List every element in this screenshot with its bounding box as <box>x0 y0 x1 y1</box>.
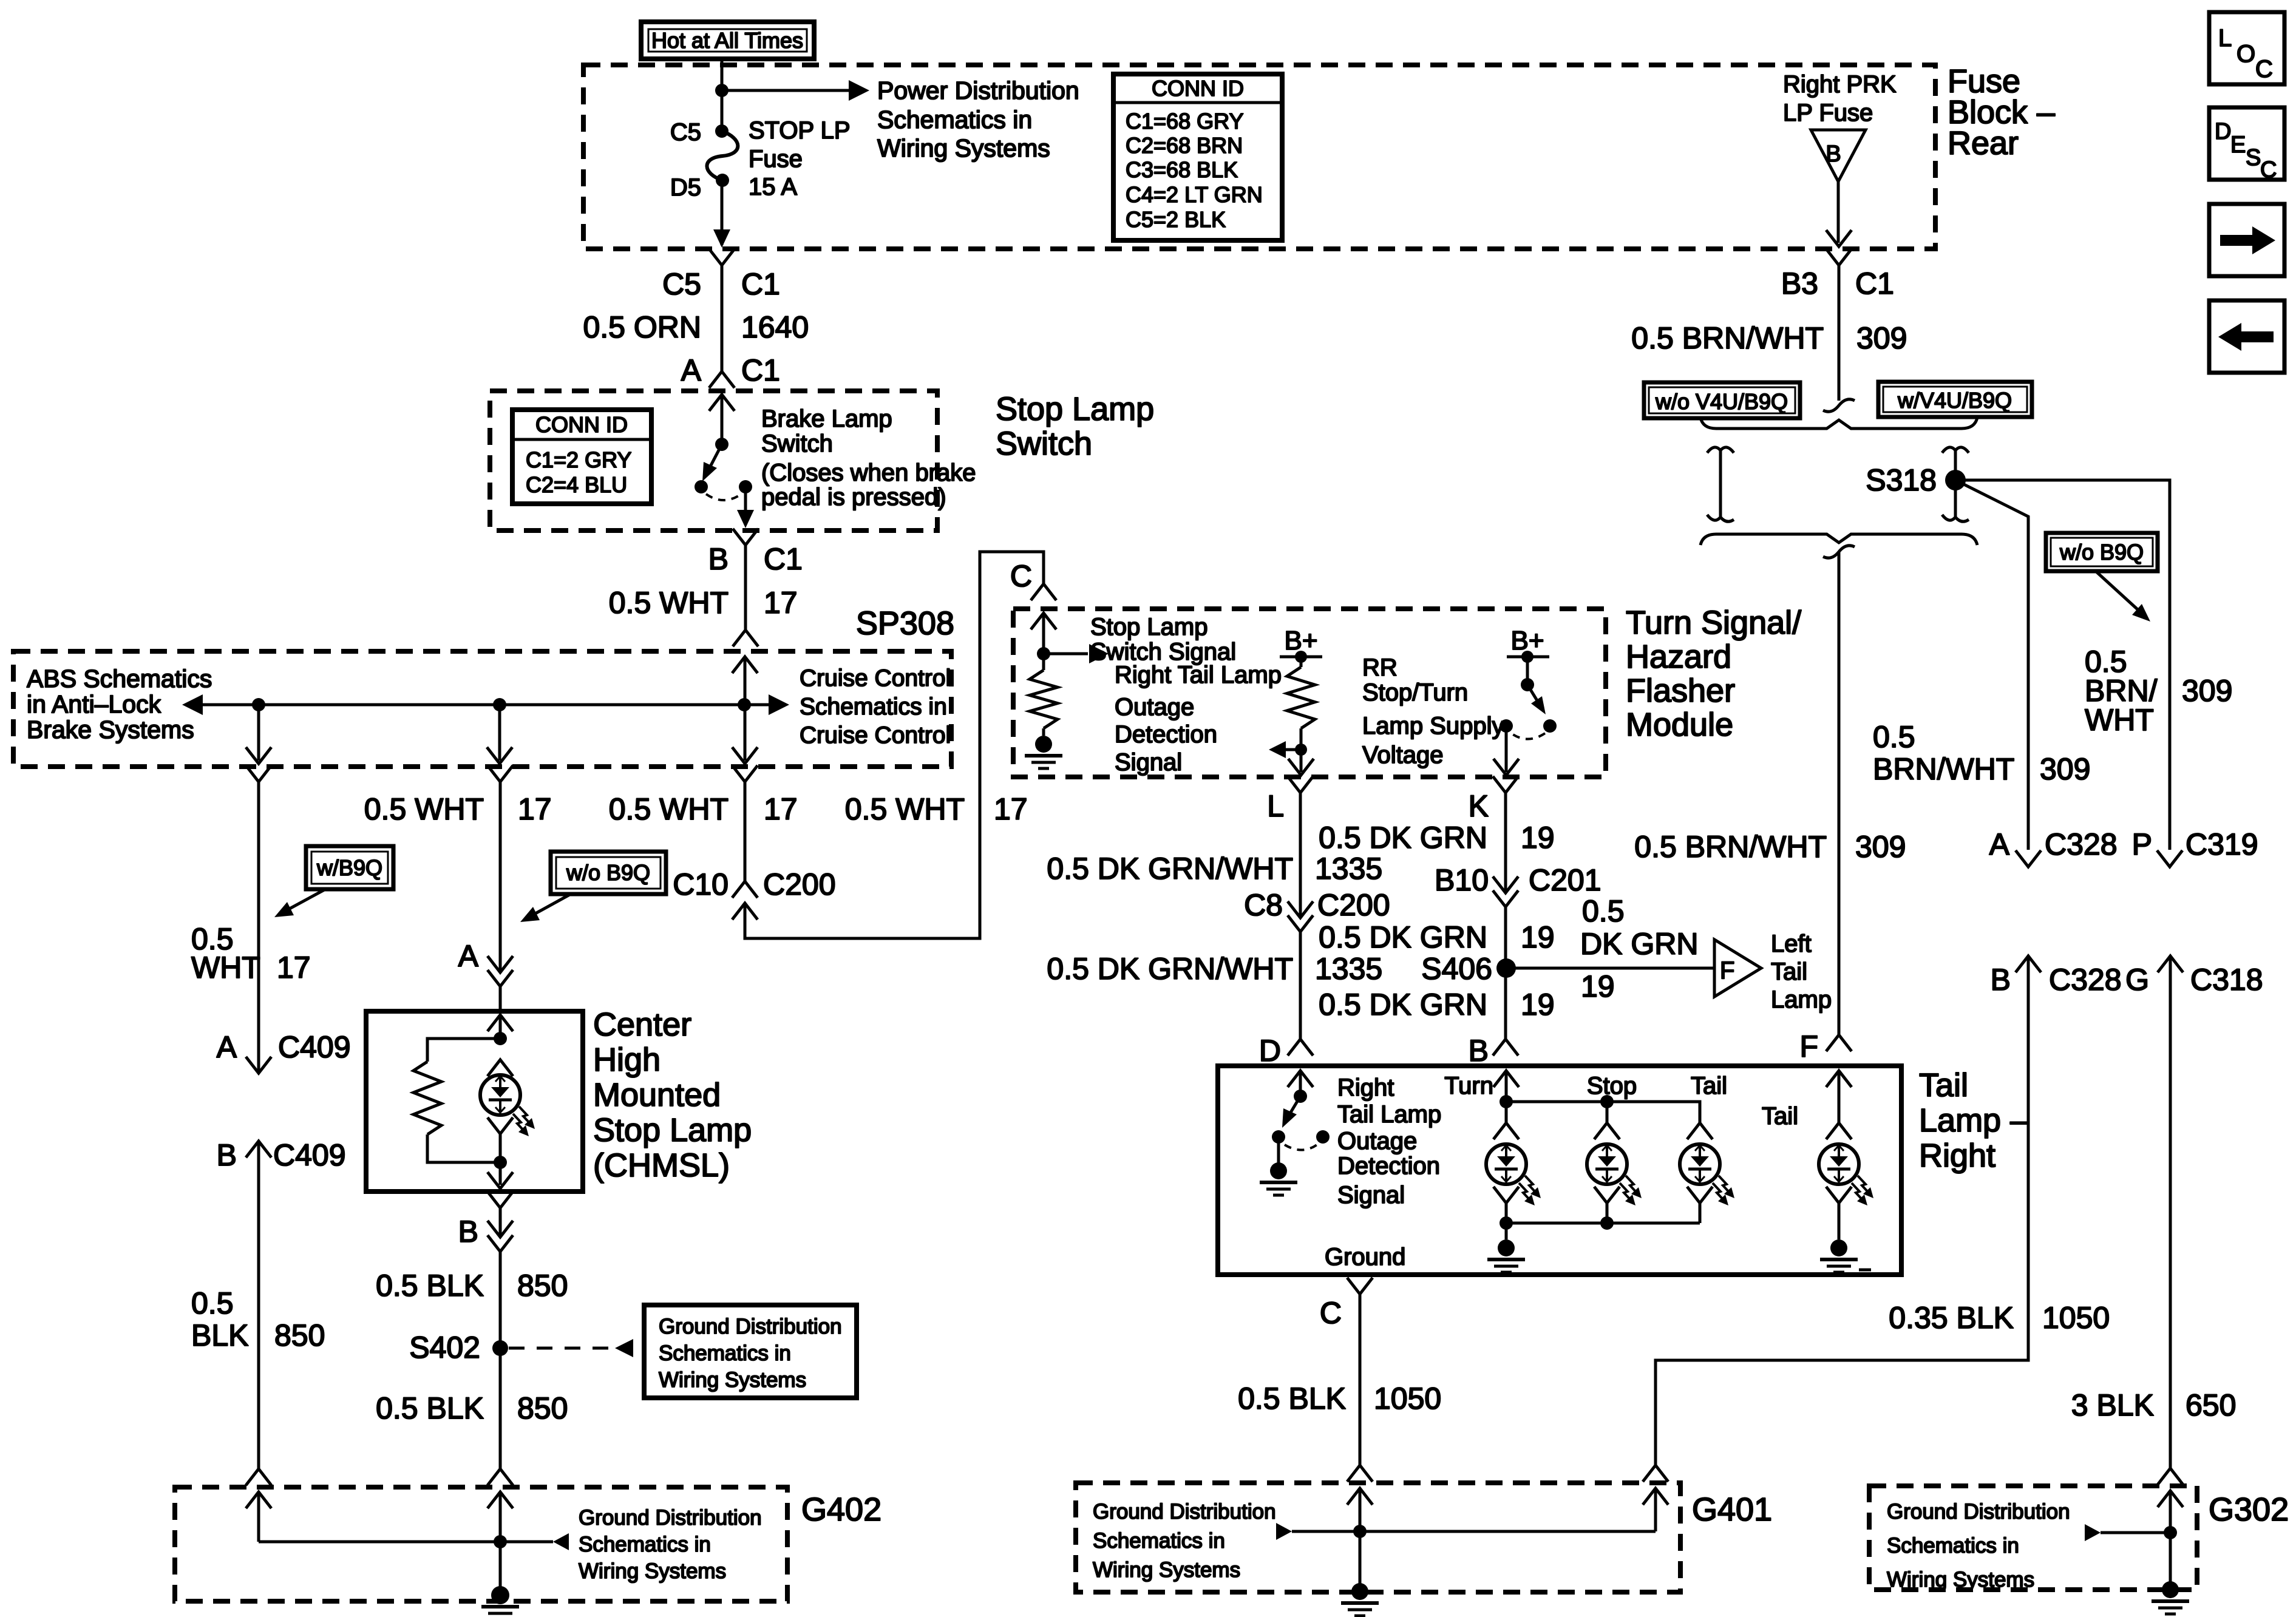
exit arrow at cruise box bottom <box>732 747 758 764</box>
svg-text:0.5 WHT: 0.5 WHT <box>609 792 729 826</box>
splice label S318 <box>1866 463 1937 497</box>
svg-text:(Closes when brake: (Closes when brake <box>761 459 976 486</box>
svg-text:Ground Distribution: Ground Distribution <box>1887 1500 2070 1524</box>
svg-text:Lamp: Lamp <box>1771 986 1832 1013</box>
svg-text:C1: C1 <box>741 353 780 387</box>
turn bulb fork bottom <box>1493 1187 1519 1203</box>
svg-text:B: B <box>458 1215 478 1249</box>
pin label A <box>217 1030 237 1064</box>
wire bulb to bottom junction <box>499 1134 502 1162</box>
svg-text:Wiring Systems: Wiring Systems <box>1887 1568 2034 1592</box>
svg-text:19: 19 <box>1521 988 1555 1022</box>
arrow at fuse block exit <box>713 229 730 248</box>
svg-text:Tail Lamp: Tail Lamp <box>1337 1101 1441 1128</box>
svg-text:0.35 BLK: 0.35 BLK <box>1889 1301 2014 1335</box>
wire label 0.5 BLK (tail) <box>1238 1381 1346 1415</box>
svg-text:C: C <box>2255 56 2273 83</box>
arrow to ABS schematics <box>182 694 203 715</box>
svg-text:Cruise Control: Cruise Control <box>800 665 951 691</box>
connector fork below CHMSL <box>487 1192 513 1208</box>
connector fork into G402 (middle) <box>487 1469 513 1485</box>
svg-text:w/o B9Q: w/o B9Q <box>566 860 650 885</box>
note: Stop Lamp Switch Signal <box>1090 614 1236 665</box>
svg-text:G302: G302 <box>2209 1491 2289 1528</box>
exit arrow at cruise box bottom <box>487 747 512 764</box>
svg-text:Power Distribution: Power Distribution <box>877 76 1079 104</box>
outage switch travel dashed arc <box>1285 1144 1319 1150</box>
CHMSL top junction dot <box>494 1032 507 1045</box>
svg-text:Wiring Systems: Wiring Systems <box>579 1559 726 1583</box>
svg-text:P: P <box>2132 827 2152 861</box>
stop bulb fork top <box>1594 1123 1620 1139</box>
branch arrow left <box>1269 741 1301 758</box>
circuit number 309 (A wire) <box>2040 752 2090 786</box>
exit arrow at cruise box bottom <box>246 747 271 764</box>
svg-text:Left: Left <box>1771 931 1812 957</box>
wire label 0.5 BRN/WHT <box>1631 321 1824 355</box>
circuit number 1335 <box>1315 852 1382 886</box>
stop bulb fork bottom <box>1594 1187 1620 1203</box>
svg-text:17: 17 <box>764 586 798 620</box>
svg-text:0.5 BLK: 0.5 BLK <box>1238 1381 1346 1415</box>
circuit number 17 <box>764 586 798 620</box>
ground box G401 dashed <box>1076 1483 1680 1592</box>
F bulb fork top <box>1826 1123 1852 1139</box>
G401 junction dot <box>1353 1525 1367 1538</box>
pin label B <box>217 1138 237 1172</box>
svg-text:Wiring Systems: Wiring Systems <box>659 1368 806 1392</box>
pin label C1 (right) <box>1855 266 1894 300</box>
svg-text:Flasher: Flasher <box>1626 673 1735 709</box>
svg-text:Ground Distribution: Ground Distribution <box>659 1315 842 1338</box>
dashed reference line from S402 <box>509 1339 633 1357</box>
svg-text:850: 850 <box>517 1391 568 1425</box>
entry arrow into flasher (C) <box>1031 613 1056 629</box>
wire label 0.5 ORN <box>583 310 701 344</box>
wire drop inside cruise box <box>257 705 260 761</box>
wire label 0.5 BRN/WHT (F wire) <box>1634 830 1827 864</box>
svg-text:C319: C319 <box>2186 827 2258 861</box>
connector fork into G402 <box>246 1469 271 1485</box>
svg-text:Tail: Tail <box>1771 958 1807 985</box>
wire into G302 bus <box>2169 1491 2172 1533</box>
resistor (stop lamp signal) <box>1030 654 1058 728</box>
svg-text:17: 17 <box>764 792 798 826</box>
svg-text:Right: Right <box>1337 1074 1394 1101</box>
pin label C1 (switch side) <box>741 353 780 387</box>
svg-text:LP Fuse: LP Fuse <box>1783 100 1873 126</box>
G402 junction dot <box>494 1535 507 1548</box>
connector C200 fork <box>732 881 758 898</box>
pin label D <box>1259 1034 1281 1068</box>
CONN ID table (stop lamp switch) <box>512 410 651 504</box>
minus mark <box>1859 1269 1871 1272</box>
svg-text:C200: C200 <box>1317 888 1390 922</box>
wire label 0.5 WHT <box>609 792 729 826</box>
svg-text:w/o V4U/B9Q: w/o V4U/B9Q <box>1655 389 1788 414</box>
svg-text:650: 650 <box>2186 1388 2236 1422</box>
wire label 0.5 DK GRN/WHT <box>1047 852 1293 886</box>
note: ABS Schematics in Anti-Lock Brake Systems <box>27 665 212 744</box>
connector C200 arrow (L wire) <box>1288 901 1313 918</box>
connector fork into cruise box <box>733 630 758 646</box>
tail lamp bulb <box>1680 1144 1734 1205</box>
pin label C5 <box>670 119 701 146</box>
wire resistor to L junction <box>1300 728 1303 750</box>
entry arrow into CHMSL <box>487 1015 513 1031</box>
entry arrow into G302 <box>2158 1491 2183 1507</box>
wire label 0.5 BRN/WHT (stacked, P wire) <box>2085 645 2158 737</box>
wire segment 0.5 BLK 850 to S402 <box>499 1252 502 1469</box>
svg-text:17: 17 <box>277 951 311 985</box>
svg-text:Stop Lamp: Stop Lamp <box>1090 614 1207 640</box>
bulb terminal fork (top) <box>487 1060 513 1076</box>
svg-text:850: 850 <box>274 1318 325 1352</box>
top bus junction dot (stop) <box>1600 1095 1614 1108</box>
svg-text:Lamp Supply: Lamp Supply <box>1362 713 1504 739</box>
svg-text:Fuse: Fuse <box>749 146 803 172</box>
svg-text:Center: Center <box>593 1006 691 1043</box>
connector A arrow <box>487 956 513 972</box>
svg-text:Schematics in: Schematics in <box>579 1533 711 1556</box>
svg-text:C1=2 GRY: C1=2 GRY <box>526 447 631 472</box>
entry arrow into cruise box <box>732 657 758 673</box>
svg-text:0.5 BLK: 0.5 BLK <box>376 1269 484 1303</box>
svg-text:0.5 DK GRN: 0.5 DK GRN <box>1319 821 1487 855</box>
wire label 0.5 DK GRN (2) <box>1319 920 1487 954</box>
connector label C409 <box>278 1030 351 1064</box>
pin label C5 (block side) <box>662 267 701 301</box>
wire segment 0.5 BLK 1050 <box>1359 1294 1362 1465</box>
note: Ground Distribution Schematics in Wiring Systems (G302) <box>1887 1500 2070 1592</box>
svg-text:BLK: BLK <box>191 1318 249 1352</box>
note: Brake Lamp Switch (Closes when brake pedal is pressed) <box>761 405 976 510</box>
svg-text:CONN ID: CONN ID <box>1152 76 1244 101</box>
svg-text:C1: C1 <box>741 267 780 301</box>
wire into G401 bus <box>1359 1488 1362 1531</box>
CHMSL bottom junction dot <box>494 1156 507 1169</box>
connector fork into switch <box>709 371 735 388</box>
svg-text:C409: C409 <box>273 1138 346 1172</box>
connector label C318 (lower) <box>2190 963 2263 997</box>
svg-text:Signal: Signal <box>1115 749 1182 776</box>
pin label F <box>1799 1029 1818 1063</box>
bulb name Stop <box>1587 1073 1637 1099</box>
svg-text:RR: RR <box>1362 654 1398 681</box>
note: Left Tail Lamp <box>1771 931 1832 1013</box>
switch blade <box>702 444 722 481</box>
connector C1 upper fork <box>709 249 735 265</box>
flasher junction dot (C) <box>1037 647 1050 660</box>
G402 bus wire <box>259 1541 553 1544</box>
svg-text:Detection: Detection <box>1115 721 1217 748</box>
svg-text:Right Tail Lamp: Right Tail Lamp <box>1115 662 1282 688</box>
pin label B3 <box>1781 266 1818 300</box>
svg-text:0.5 ORN: 0.5 ORN <box>583 310 701 344</box>
pin label A <box>681 353 702 387</box>
svg-text:309: 309 <box>1856 321 1907 355</box>
svg-text:E: E <box>2230 132 2246 158</box>
circuit number 309 (F wire) <box>1855 830 1906 864</box>
circuit number 17 <box>518 792 552 826</box>
circuit number 19 (2) <box>1521 920 1555 954</box>
entry arrow into G402 (middle) <box>487 1492 513 1508</box>
tail lamp - right solid box <box>1218 1066 1901 1275</box>
svg-text:C328: C328 <box>2049 963 2122 997</box>
connector C200 fork (L wire) <box>1288 915 1313 932</box>
svg-text:w/V4U/B9Q: w/V4U/B9Q <box>1897 388 2012 413</box>
pin label K <box>1469 789 1489 823</box>
svg-text:A: A <box>681 353 702 387</box>
resistor R (CHMSL shunt) <box>413 1039 500 1162</box>
svg-text:BRN/WHT: BRN/WHT <box>1873 752 2014 786</box>
splice bus wire SP308 <box>185 703 786 707</box>
entry arrow into tail lamp (F) <box>1826 1071 1852 1087</box>
svg-text:0.5 DK GRN: 0.5 DK GRN <box>1319 920 1487 954</box>
svg-text:19: 19 <box>1521 821 1555 855</box>
wire resistor to ground <box>1042 728 1045 736</box>
DESC navigation box <box>2209 107 2284 183</box>
exit arrow at pin K <box>1493 759 1519 775</box>
pin label C <box>1010 559 1032 593</box>
svg-text:C201: C201 <box>1529 863 1601 897</box>
wire from closed contact to box edge <box>744 487 747 520</box>
connector label C328 <box>2045 827 2118 861</box>
svg-text:SP308: SP308 <box>856 605 954 642</box>
wire to G402 ground <box>499 1542 502 1588</box>
tail bulb fork top <box>1687 1123 1713 1139</box>
svg-text:C5: C5 <box>662 267 701 301</box>
wire jog to flasher input C <box>745 552 1044 938</box>
pin label C (tail lamp ground) <box>1320 1296 1342 1330</box>
bulb name Tail <box>1691 1073 1727 1099</box>
svg-text:C2=68 BRN: C2=68 BRN <box>1126 133 1243 158</box>
wire label 0.5 WHT <box>609 586 729 620</box>
power tag: Hot at All Times <box>641 22 814 59</box>
svg-text:0.5 WHT: 0.5 WHT <box>609 586 729 620</box>
G302 bus wire <box>2101 1531 2170 1534</box>
stop branch wire <box>1606 1102 1609 1123</box>
svg-text:High: High <box>593 1042 661 1078</box>
svg-text:S318: S318 <box>1866 463 1937 497</box>
connector fork at tail lamp F <box>1826 1035 1852 1051</box>
outage switch pivot dot <box>1294 1090 1307 1103</box>
tag box w/o V4U/B9Q <box>1644 382 1800 418</box>
circuit number 1050 (tail) <box>1374 1381 1441 1415</box>
wire segment 0.5 BRN/WHT 309 (S318 to tail lamp F) <box>1838 552 1841 1035</box>
connector A fork <box>487 970 513 986</box>
next-page arrow box <box>2209 204 2284 276</box>
turn signal / hazard flasher module dashed box <box>1013 609 1606 777</box>
svg-text:Brake Systems: Brake Systems <box>27 716 194 744</box>
connector label C319 <box>2186 827 2258 861</box>
S318 lower brace <box>1700 534 1977 545</box>
reference box: Ground Distribution Schematics in Wiring Systems <box>644 1305 857 1398</box>
resistor (RR stop/turn supply) <box>1287 657 1315 728</box>
connector label C200 <box>763 867 836 901</box>
switch closed contact dot <box>739 480 752 493</box>
svg-text:Wiring Systems: Wiring Systems <box>877 134 1050 162</box>
wire segment 0.5 DK GRN 19 (middle) <box>1504 907 1507 1039</box>
svg-text:Signal: Signal <box>1337 1182 1405 1209</box>
svg-text:0.5 BRN/WHT: 0.5 BRN/WHT <box>1634 830 1827 864</box>
wire drop inside cruise box <box>744 705 747 761</box>
svg-text:C5=2 BLK: C5=2 BLK <box>1126 207 1226 232</box>
fuse terminal dot D5 <box>716 174 729 187</box>
svg-text:B: B <box>708 542 729 576</box>
svg-text:D5: D5 <box>670 174 701 201</box>
svg-text:Brake Lamp: Brake Lamp <box>761 405 892 432</box>
connector fork below cruise box (right drop) <box>732 765 758 782</box>
svg-text:17: 17 <box>994 792 1028 826</box>
wire label 3 BLK <box>2071 1388 2154 1422</box>
svg-text:C8: C8 <box>1244 888 1283 922</box>
pin label G (C318) <box>2125 963 2149 997</box>
wire label 0.5 DK GRN (1) <box>1319 821 1487 855</box>
circuit number 19 (1) <box>1521 821 1555 855</box>
svg-text:0.5 WHT: 0.5 WHT <box>845 792 965 826</box>
CHMSL solid box <box>366 1011 583 1192</box>
wire label 0.5 BLK (left) <box>191 1286 325 1352</box>
svg-text:Outage: Outage <box>1115 694 1194 720</box>
B+ bar (right) <box>1507 656 1549 659</box>
exit arrow A C409 <box>246 1057 271 1073</box>
wire label 0.5 DK GRN (3) <box>1319 988 1487 1022</box>
note: Ground Distribution Schematics in Wiring Systems (G402) <box>579 1506 762 1583</box>
connector C200 male half <box>732 903 758 920</box>
stop bulb lower wire <box>1606 1203 1609 1223</box>
svg-text:Rear: Rear <box>1948 125 2019 161</box>
svg-text:C1: C1 <box>1855 266 1894 300</box>
svg-text:C5: C5 <box>670 119 701 146</box>
circuit number 650 <box>2186 1388 2236 1422</box>
pin label B (CHMSL out) <box>458 1215 478 1249</box>
svg-text:D: D <box>1259 1034 1281 1068</box>
tail lamp top bus <box>1506 1102 1700 1123</box>
connector fork into G401 (right) <box>1643 1465 1668 1482</box>
svg-text:w/B9Q: w/B9Q <box>316 855 382 880</box>
svg-text:Ground Distribution: Ground Distribution <box>579 1506 762 1530</box>
svg-text:Schematics in: Schematics in <box>800 694 947 720</box>
svg-text:Stop/Turn: Stop/Turn <box>1362 679 1468 706</box>
G302 junction dot <box>2164 1526 2177 1539</box>
CHMSL bulb <box>480 1075 535 1136</box>
ground symbol (bulbs) <box>1487 1239 1525 1272</box>
wire B to bus <box>1505 1071 1508 1102</box>
wire into G402 bus <box>257 1492 260 1542</box>
svg-text:1050: 1050 <box>2042 1301 2110 1335</box>
connector fork into G401 <box>1347 1465 1373 1482</box>
arrow from w/o B9Q to P wire <box>2096 571 2150 622</box>
svg-text:Tail: Tail <box>1762 1103 1798 1130</box>
svg-text:B: B <box>1991 963 2011 997</box>
note: Right Tail Lamp Outage Detection Signal <box>1115 662 1282 776</box>
switch open contact dot <box>695 480 708 493</box>
svg-text:C1=68 GRY: C1=68 GRY <box>1126 109 1243 134</box>
G402 arrow <box>553 1533 569 1550</box>
splice S318 dot <box>1945 470 1966 490</box>
bottom bus junction dot (turn) <box>1500 1216 1513 1230</box>
svg-text:15 A: 15 A <box>749 174 797 200</box>
component name: Center High Mounted Stop Lamp (CHMSL) <box>593 1006 752 1184</box>
wire into G402 bus (middle) <box>499 1492 502 1542</box>
note: Right Tail Lamp Outage Detection Signal (tail lamp) <box>1337 1074 1441 1209</box>
svg-text:0.5 DK GRN/WHT: 0.5 DK GRN/WHT <box>1047 952 1293 986</box>
wire label 0.5 BLK <box>376 1269 484 1303</box>
wire from PRK fuse to block edge <box>1837 181 1840 243</box>
exit arrow from CHMSL <box>487 1172 513 1188</box>
exit arrow at pin L <box>1288 759 1314 775</box>
pin label B10 <box>1435 863 1489 897</box>
wire to fuse C5 <box>721 90 724 131</box>
label Ground <box>1325 1244 1405 1270</box>
arrow to Power Distribution <box>849 80 869 101</box>
svg-text:C: C <box>1320 1296 1342 1330</box>
CONN ID table (fuse block rear) <box>1113 74 1282 240</box>
svg-text:(CHMSL): (CHMSL) <box>593 1147 730 1184</box>
ground box G302 dashed <box>1869 1486 2197 1590</box>
arrow at switch exit <box>737 510 754 528</box>
connector label C409 (lower) <box>273 1138 346 1172</box>
svg-text:Outage: Outage <box>1337 1128 1417 1154</box>
outage switch right contact dot <box>1316 1130 1330 1144</box>
svg-text:0.5: 0.5 <box>1582 894 1625 928</box>
wire to CHMSL exit <box>499 1162 502 1185</box>
svg-text:Hot at All Times: Hot at All Times <box>651 28 803 53</box>
wire to G401 ground <box>1359 1531 1362 1584</box>
stop lamp bulb <box>1587 1144 1642 1205</box>
svg-text:1050: 1050 <box>1374 1381 1441 1415</box>
svg-text:1335: 1335 <box>1315 952 1382 986</box>
svg-text:L: L <box>2218 25 2232 52</box>
connector C201 arrow <box>1493 876 1518 893</box>
svg-text:B: B <box>1826 141 1841 167</box>
svg-text:C328: C328 <box>2045 827 2118 861</box>
component name: Fuse Block - Rear <box>1948 63 2055 161</box>
wire to pin K exit <box>1505 726 1508 772</box>
wire: power distribution branch <box>722 89 849 92</box>
flasher switch open contact dot <box>1543 719 1557 733</box>
svg-text:C10: C10 <box>673 867 729 901</box>
connector label C200 (L wire) <box>1317 888 1390 922</box>
bulb terminal fork (bottom) <box>487 1117 513 1134</box>
F bulb lower wire <box>1838 1203 1841 1239</box>
svg-text:WHT: WHT <box>191 951 260 985</box>
svg-text:B10: B10 <box>1435 863 1489 897</box>
svg-text:Ground: Ground <box>1325 1244 1405 1270</box>
arrow from w/o B9Q tag to wire <box>520 894 571 922</box>
svg-text:0.5: 0.5 <box>191 1286 234 1320</box>
connector fork at flasher C <box>1031 584 1056 600</box>
connector label C328 (lower) <box>2049 963 2122 997</box>
turn bulb lower wire <box>1505 1203 1508 1223</box>
svg-text:Mounted: Mounted <box>593 1077 721 1113</box>
junction dot right <box>738 698 751 711</box>
wire label 0.5 WHT (jog) <box>845 792 965 826</box>
wire to switch pivot <box>721 395 724 444</box>
B+ bar (left) <box>1280 656 1322 659</box>
arrow end P C319 <box>2157 850 2182 867</box>
ground symbol G302 <box>2152 1581 2189 1614</box>
connector B arrow <box>487 1221 513 1237</box>
fuse symbol B (Right PRK LP Fuse) <box>1811 130 1866 181</box>
svg-text:ABS Schematics: ABS Schematics <box>27 665 212 693</box>
turn signal bulb <box>1486 1144 1541 1205</box>
circuit number 1640 <box>741 310 809 344</box>
circuit number 17 <box>764 792 798 826</box>
pin label C1 <box>764 542 803 576</box>
arrow to cruise control schematics <box>769 694 789 715</box>
